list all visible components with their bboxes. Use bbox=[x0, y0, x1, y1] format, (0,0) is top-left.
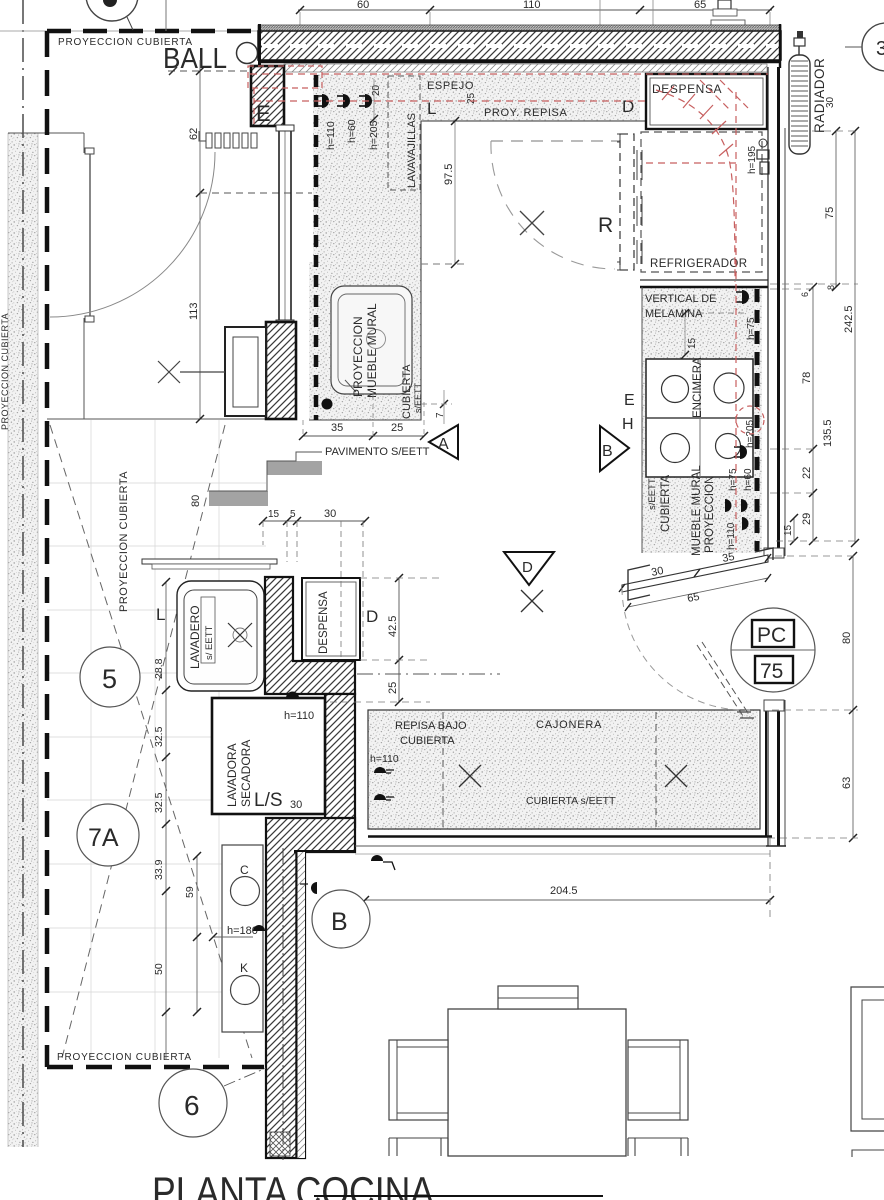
right wall lower segment bbox=[767, 700, 769, 846]
hall door swing arc bbox=[50, 152, 215, 317]
svg-text:LAVADERO: LAVADERO bbox=[188, 605, 202, 669]
svg-text:D: D bbox=[522, 559, 533, 576]
svg-text:PC: PC bbox=[757, 624, 786, 647]
top dimension line 60/110/65 bbox=[298, 9, 772, 11]
svg-text:60: 60 bbox=[357, 0, 369, 11]
svg-text:PAVIMENTO S/EETT: PAVIMENTO S/EETT bbox=[325, 446, 430, 458]
svg-text:h=60: h=60 bbox=[743, 468, 754, 491]
lamp at south wall left bbox=[311, 882, 317, 894]
svg-text:h=110: h=110 bbox=[726, 522, 737, 550]
left dim column 28.8/32.5/32.5/33.9/50 bbox=[165, 582, 167, 1060]
svg-text:80: 80 bbox=[841, 632, 853, 644]
right wall upper segment bbox=[767, 67, 769, 556]
east thick dashed mueble line bbox=[755, 289, 760, 551]
svg-text:DESPENSA: DESPENSA bbox=[318, 591, 330, 654]
svg-text:42.5: 42.5 bbox=[387, 616, 399, 637]
dashed line mid hall bbox=[200, 192, 312, 194]
svg-text:A: A bbox=[438, 436, 449, 453]
radiator bbox=[789, 55, 810, 154]
svg-text:35: 35 bbox=[331, 422, 343, 434]
svg-text:B: B bbox=[331, 908, 348, 936]
grid bubble 6 bbox=[159, 1069, 227, 1137]
lamps in south counter bbox=[374, 767, 386, 800]
svg-text:6: 6 bbox=[184, 1090, 200, 1121]
svg-text:CUBIERTA: CUBIERTA bbox=[660, 475, 672, 532]
chair top bbox=[498, 986, 578, 1009]
top wall fine hatch strip bbox=[258, 25, 781, 31]
svg-text:65: 65 bbox=[686, 591, 700, 605]
svg-text:75: 75 bbox=[760, 660, 783, 683]
door leaf south-east with dims 30/35/65 bbox=[622, 555, 768, 592]
west counter stipple lower (sink run) bbox=[309, 262, 421, 420]
thin vertical line left of BALL bbox=[165, 0, 167, 31]
dishwasher dashed box bbox=[388, 76, 420, 190]
svg-text:32.5: 32.5 bbox=[153, 726, 165, 747]
svg-text:PROYECCION: PROYECCION bbox=[351, 316, 365, 397]
right edge of top wall bbox=[779, 24, 781, 68]
shelf above lavadero bbox=[142, 559, 277, 564]
right dim column bbox=[854, 131, 856, 543]
north counter stipple bbox=[313, 74, 640, 121]
ceiling lamp symbols top bbox=[322, 94, 372, 108]
svg-text:32.5: 32.5 bbox=[153, 792, 165, 813]
svg-text:L/S: L/S bbox=[254, 790, 283, 811]
svg-text:50: 50 bbox=[153, 963, 165, 975]
svg-text:PROYECCION CUBIERTA: PROYECCION CUBIERTA bbox=[57, 1052, 192, 1063]
lamp dot above L/S bbox=[286, 692, 299, 698]
svg-text:80: 80 bbox=[190, 495, 202, 507]
svg-text:PROY. REPISA: PROY. REPISA bbox=[484, 107, 567, 119]
dash-dot kitchen axis bbox=[357, 673, 500, 675]
kitchen wall-hung unit projection (rounded) bbox=[331, 286, 412, 398]
chair left bbox=[389, 1040, 448, 1120]
svg-text:PROYECCION CUBIERTA: PROYECCION CUBIERTA bbox=[0, 313, 10, 430]
kitchen west wall: despensa-level L wall bbox=[265, 577, 355, 694]
grid bubble 7A bbox=[77, 804, 139, 866]
svg-text:RADIADOR: RADIADOR bbox=[812, 58, 827, 133]
grid bubble top-left bbox=[86, 0, 138, 21]
proyeccion cubierta dashed boundary bottom bbox=[47, 1065, 264, 1070]
small circle next to BALL bbox=[237, 43, 258, 64]
svg-text:CUBIERTA: CUBIERTA bbox=[400, 735, 455, 747]
svg-text:65: 65 bbox=[694, 0, 706, 11]
triangle A bbox=[429, 425, 458, 459]
refrigerator dashed box bbox=[641, 132, 762, 272]
svg-text:30: 30 bbox=[324, 508, 336, 520]
floor tile grid of hall bbox=[47, 420, 266, 1058]
svg-text:75: 75 bbox=[824, 207, 836, 219]
wall right of L/S bbox=[325, 694, 355, 827]
svg-text:VERTICAL DE: VERTICAL DE bbox=[645, 293, 717, 305]
svg-text:PROYECCION: PROYECCION bbox=[704, 476, 716, 553]
triangle D with X bbox=[504, 552, 554, 585]
svg-text:5: 5 bbox=[102, 664, 117, 694]
svg-text:MUEBLE MURAL: MUEBLE MURAL bbox=[691, 465, 703, 556]
dims 80/63 right lower bbox=[852, 556, 854, 838]
svg-text:20: 20 bbox=[371, 84, 382, 96]
grid bubble B bbox=[312, 890, 370, 948]
dim 15/5/30 bbox=[263, 520, 365, 522]
lamp near counter corner bbox=[371, 855, 383, 861]
grid bubble 5 bbox=[80, 647, 140, 707]
dim 35/25 pavimento bbox=[303, 435, 424, 437]
X mark in door swing bbox=[520, 211, 544, 235]
east counter top edges bbox=[640, 279, 768, 281]
svg-text:BALL: BALL bbox=[163, 43, 227, 75]
fridge door panel (dashed projection) bbox=[620, 134, 634, 270]
svg-text:D: D bbox=[366, 607, 378, 626]
thin base line under top boundary bbox=[0, 30, 258, 32]
thick bottom edge of top wall bbox=[258, 60, 781, 64]
svg-text:25: 25 bbox=[466, 92, 477, 104]
svg-text:CUBIERTA s/EETT: CUBIERTA s/EETT bbox=[526, 795, 616, 807]
svg-text:L: L bbox=[156, 605, 165, 624]
svg-text:H: H bbox=[622, 416, 634, 433]
X mark and tie line bbox=[158, 361, 225, 383]
svg-text:97.5: 97.5 bbox=[443, 164, 455, 185]
dining table bbox=[448, 1009, 626, 1156]
svg-text:h=110: h=110 bbox=[325, 121, 337, 150]
svg-text:h=110: h=110 bbox=[370, 753, 399, 765]
double dashed door leaf bbox=[697, 645, 743, 716]
hall door jamb bbox=[83, 133, 85, 153]
svg-text:ENCIMERA: ENCIMERA bbox=[692, 357, 704, 418]
svg-text:C: C bbox=[240, 863, 249, 877]
svg-text:PROYECCION CUBIERTA: PROYECCION CUBIERTA bbox=[118, 471, 130, 612]
door jambs right wall bbox=[764, 548, 784, 558]
dim line 62/113 bbox=[199, 60, 201, 419]
hall door leaf bbox=[89, 154, 91, 316]
svg-text:30: 30 bbox=[290, 799, 302, 811]
west counter stipple upper bbox=[313, 121, 421, 262]
svg-text:15: 15 bbox=[268, 509, 280, 520]
white dashed centerline inside wall bbox=[262, 44, 778, 48]
svg-text:E: E bbox=[256, 101, 271, 126]
laundry L/S box bbox=[212, 698, 325, 814]
center dash-dot of south-west wall bbox=[282, 848, 284, 1160]
svg-text:h=75: h=75 bbox=[728, 468, 739, 491]
svg-text:63: 63 bbox=[841, 777, 853, 789]
svg-text:B: B bbox=[602, 443, 613, 460]
svg-text:30: 30 bbox=[825, 96, 836, 108]
svg-text:204.5: 204.5 bbox=[550, 885, 578, 897]
svg-text:29: 29 bbox=[801, 513, 813, 525]
svg-text:CUBIERTA: CUBIERTA bbox=[401, 364, 413, 419]
svg-text:22: 22 bbox=[801, 467, 813, 479]
despensa top box bbox=[646, 74, 767, 129]
svg-text:30: 30 bbox=[650, 565, 664, 579]
south counter stipple bbox=[368, 710, 758, 830]
svg-text:ESPEJO: ESPEJO bbox=[427, 80, 474, 92]
cooktop bbox=[646, 359, 753, 477]
dim 204.5 bbox=[365, 899, 770, 901]
svg-text:MUEBLE MURAL: MUEBLE MURAL bbox=[365, 303, 379, 398]
svg-text:3: 3 bbox=[876, 38, 884, 60]
svg-text:25: 25 bbox=[391, 422, 403, 434]
svg-text:15: 15 bbox=[783, 524, 794, 536]
svg-text:E: E bbox=[624, 392, 635, 409]
svg-text:R: R bbox=[598, 214, 613, 237]
wall pier mid bbox=[266, 322, 296, 419]
crosshatch section at wall bottom bbox=[270, 1132, 290, 1156]
left edge of top wall bbox=[258, 24, 261, 66]
svg-text:78: 78 bbox=[801, 372, 813, 384]
kitchen south boundary lines bbox=[355, 845, 770, 847]
centerline dash-dot of left band bbox=[22, 0, 24, 1147]
counter front edge line bbox=[423, 120, 646, 122]
svg-text:8: 8 bbox=[826, 285, 836, 290]
svg-text:h=110: h=110 bbox=[284, 710, 314, 722]
dot at sink corner bbox=[322, 399, 333, 410]
svg-text:K: K bbox=[240, 961, 248, 975]
east lamps bbox=[742, 290, 749, 304]
X marks south counter bbox=[459, 765, 687, 787]
wall pier E bbox=[251, 66, 284, 126]
diagonal dashed X over hall (proyeccion) bbox=[50, 425, 252, 1058]
radiator valve bbox=[798, 42, 800, 55]
despensa 2 box bbox=[302, 578, 360, 660]
svg-text:h=60: h=60 bbox=[346, 119, 358, 143]
lavadero sink bbox=[177, 581, 264, 691]
dim 97.5 bbox=[454, 121, 456, 264]
proyeccion cubierta dashed boundary top bbox=[47, 29, 270, 34]
svg-text:SECADORA: SECADORA bbox=[239, 740, 253, 807]
kitchen entry door swing arc bbox=[491, 141, 615, 269]
black dashed mueble mural line west bbox=[314, 75, 319, 420]
hall cabinet against pier bbox=[225, 327, 266, 416]
svg-text:242.5: 242.5 bbox=[843, 305, 855, 333]
east counter stipple bbox=[642, 287, 762, 553]
west window: outer lines bbox=[278, 128, 280, 322]
top wall main hatched band bbox=[258, 31, 781, 60]
svg-text:35: 35 bbox=[721, 551, 735, 565]
south counter dashed dividers bbox=[442, 712, 444, 828]
svg-text:MELAMINA: MELAMINA bbox=[645, 308, 703, 320]
PC 75 symbol bbox=[731, 608, 815, 692]
svg-text:110: 110 bbox=[523, 0, 541, 11]
south counter borders bbox=[368, 710, 760, 829]
svg-text:15: 15 bbox=[687, 337, 698, 349]
vent symbol on top wall bbox=[718, 0, 731, 9]
svg-text:59: 59 bbox=[184, 886, 196, 898]
dim 59 bbox=[196, 856, 198, 1012]
svg-text:D: D bbox=[622, 97, 634, 116]
wall below L/S going south bbox=[266, 818, 355, 1158]
svg-text:28.8: 28.8 bbox=[153, 658, 165, 679]
svg-text:REPISA BAJO: REPISA BAJO bbox=[395, 720, 467, 732]
red overlay lines bbox=[248, 66, 768, 550]
second table bottom right bbox=[851, 987, 884, 1131]
top edge line of left band bbox=[8, 132, 84, 134]
svg-text:h=195: h=195 bbox=[747, 145, 758, 174]
svg-text:L: L bbox=[427, 99, 436, 118]
svg-text:s/ EETT: s/ EETT bbox=[204, 625, 215, 660]
svg-text:h=205: h=205 bbox=[368, 120, 380, 150]
svg-text:s/EETT: s/EETT bbox=[413, 382, 423, 413]
dashed reference line under BALL bbox=[168, 70, 264, 72]
svg-text:s/EETT: s/EETT bbox=[647, 478, 658, 510]
svg-text:113: 113 bbox=[188, 302, 200, 320]
gray steps bbox=[267, 461, 322, 475]
dim 15 east bbox=[684, 313, 686, 355]
grid bubble 3 bbox=[862, 23, 884, 71]
svg-text:6: 6 bbox=[800, 292, 810, 297]
svg-text:7A: 7A bbox=[88, 824, 119, 852]
svg-text:REFRIGERADOR: REFRIGERADOR bbox=[650, 258, 747, 270]
left neighbour wall stippled band bbox=[8, 133, 38, 1147]
svg-text:33.9: 33.9 bbox=[153, 859, 165, 880]
svg-text:25: 25 bbox=[387, 682, 399, 694]
svg-text:LAVAVAJILLAS: LAVAVAJILLAS bbox=[406, 113, 418, 188]
door threshold comb bbox=[199, 131, 257, 148]
under-wall light hatch strip (repisa) bbox=[284, 64, 767, 72]
svg-text:CAJONERA: CAJONERA bbox=[536, 719, 602, 731]
svg-text:LAVADORA: LAVADORA bbox=[225, 743, 239, 807]
chair right bbox=[628, 1040, 688, 1120]
proyeccion cubierta dashed boundary left bbox=[45, 31, 50, 1067]
counter inner edges bbox=[309, 121, 646, 420]
hall divider line bbox=[47, 418, 266, 420]
triangle B bbox=[600, 426, 629, 471]
svg-text:DESPENSA: DESPENSA bbox=[652, 82, 722, 96]
swing arc of right door bbox=[622, 588, 750, 710]
dim 42.5/25 bbox=[398, 577, 400, 702]
svg-text:62: 62 bbox=[188, 128, 200, 140]
svg-text:135.5: 135.5 bbox=[822, 419, 834, 447]
svg-text:5: 5 bbox=[290, 509, 296, 520]
C/K cabinet bbox=[222, 845, 263, 1032]
